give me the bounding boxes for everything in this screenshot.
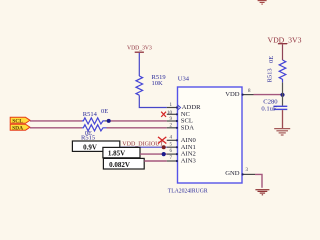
svg-text:VDD_DIGIOUT: VDD_DIGIOUT <box>122 140 163 147</box>
wire 0.082V box to AIN3 pin <box>144 160 167 162</box>
IC U34 TLA2024IRUGR body <box>178 87 243 183</box>
svg-text:TLA2024IRUGR: TLA2024IRUGR <box>168 187 208 194</box>
wire SCL flag to R514 <box>30 120 82 122</box>
sheet entry flag SDA <box>10 124 30 131</box>
svg-text:AIN3: AIN3 <box>181 158 197 165</box>
probe box 0.9V <box>72 141 119 151</box>
svg-text:R514: R514 <box>83 111 98 118</box>
svg-text:VDD: VDD <box>225 91 240 98</box>
svg-text:10K: 10K <box>152 80 164 87</box>
junction dot on AIN2 wire <box>162 152 166 156</box>
svg-text:0.1uF: 0.1uF <box>261 105 277 112</box>
junction dot on SCL wire <box>107 119 111 123</box>
pin names <box>181 91 240 177</box>
power port VDD_3V3 (right, above R513) <box>268 37 303 60</box>
svg-text:VDD_3V3: VDD_3V3 <box>127 44 152 51</box>
junction dot VDD node <box>280 93 284 97</box>
ground (below GND pin) <box>255 190 269 195</box>
svg-text:SDA: SDA <box>12 125 23 131</box>
resistor R514 <box>82 108 108 124</box>
junction dot on AIN1 wire <box>162 145 166 149</box>
wire 0.9V box to AIN1 pin <box>120 146 167 148</box>
no-connect X on NC pin <box>161 112 166 117</box>
probe box 0.082V <box>103 158 144 169</box>
wire R513 to VDD node <box>282 82 284 105</box>
pin dots at body edge <box>176 94 244 176</box>
svg-text:1.85V: 1.85V <box>108 150 125 158</box>
svg-text:10: 10 <box>167 111 173 116</box>
probe box 1.85V <box>103 147 140 157</box>
svg-text:SCL: SCL <box>12 119 23 125</box>
wire R514 to SCL pin <box>107 120 167 122</box>
wire C280 to ground <box>282 110 284 128</box>
wire R519 to ADDR pin <box>139 95 167 107</box>
pins VDD(8) and GND(3) stubs <box>242 95 255 175</box>
resistor R515 <box>81 125 107 142</box>
svg-text:0.082V: 0.082V <box>109 161 130 169</box>
svg-text:0E: 0E <box>101 108 108 115</box>
no-connect X on AIN0 pin <box>158 137 166 144</box>
input arrow on ADDR pin <box>178 105 181 110</box>
capacitor C280 <box>261 99 287 113</box>
svg-text:0E: 0E <box>268 56 275 63</box>
power port VDD_3V3 (left, above R519) <box>127 44 152 76</box>
wire 1.85V box to AIN2 pin <box>140 153 167 155</box>
wire VDD pin to C280/R513 <box>254 94 283 96</box>
svg-text:SDA: SDA <box>181 124 194 131</box>
pins ADDR/NC/SCL/SDA/AIN0-AIN3 stubs <box>167 108 178 162</box>
sheet entry flag SCL <box>10 117 30 124</box>
svg-text:U34: U34 <box>178 75 190 82</box>
svg-text:0.9V: 0.9V <box>83 143 97 151</box>
svg-text:R513: R513 <box>266 68 273 82</box>
wire GND pin to ground <box>255 174 262 187</box>
wire R515 to SDA pin <box>107 127 167 129</box>
pin numbers <box>167 89 251 173</box>
ground (below C280) <box>274 129 290 135</box>
resistor R513 <box>266 56 286 83</box>
svg-text:GND: GND <box>225 170 240 177</box>
resistor R519 <box>136 74 166 95</box>
wire SDA flag to R515 <box>30 127 82 129</box>
ground (partial, top edge) <box>258 1 267 5</box>
